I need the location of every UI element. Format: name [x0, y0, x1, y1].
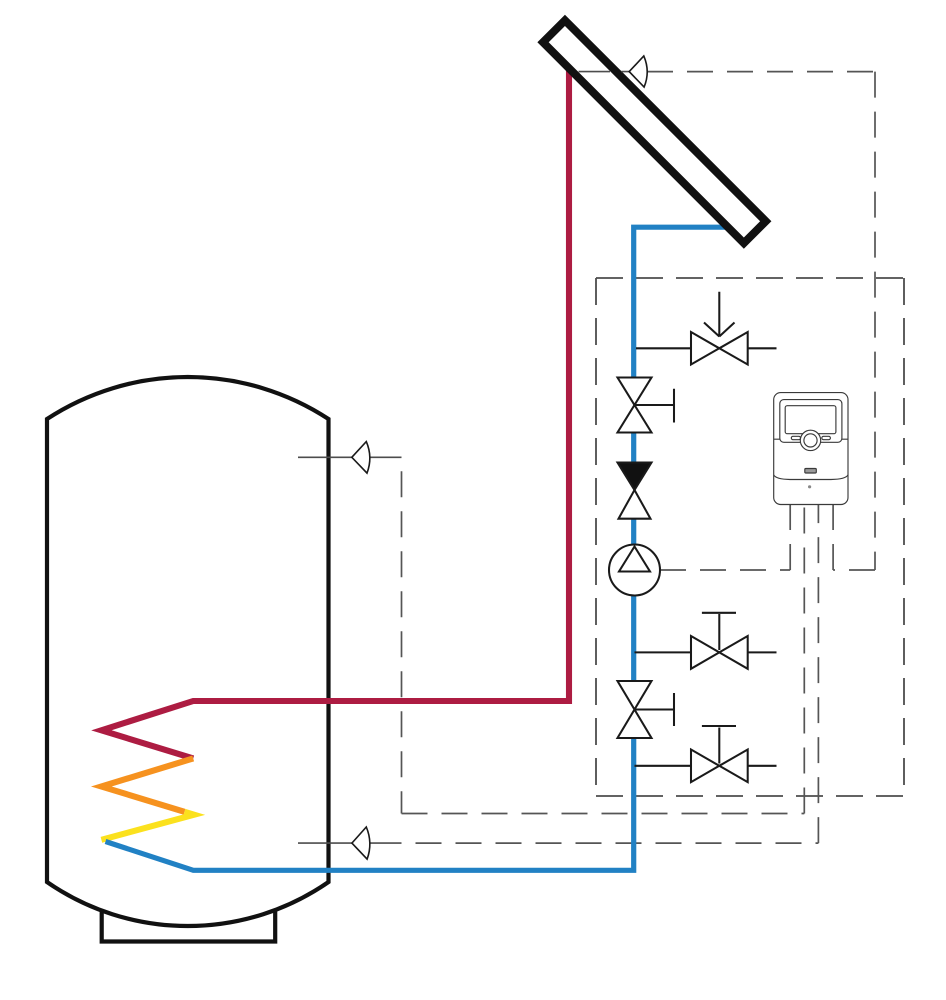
collector sensor lead (solid, over panel) — [579, 71, 630, 73]
circulation pump P1 — [609, 545, 660, 596]
tank temperature sensor S2 (upper) — [352, 442, 370, 474]
sensor wire: tank sensor S3 (lower) to controller — [402, 505, 819, 843]
storage tank foot — [102, 909, 276, 942]
cold return pipe (blue): collector to tank coil — [106, 227, 734, 870]
ball valve branch line (bottom) — [635, 765, 777, 767]
control wire: pump to controller — [660, 505, 790, 570]
heat exchanger coil: orange section — [101, 758, 193, 811]
solar collector panel — [543, 20, 766, 243]
shut-off valve V4 (riser, lower) — [618, 681, 675, 738]
tank temperature sensor S3 (lower) — [352, 827, 370, 859]
heat exchanger coil: yellow section — [101, 812, 194, 840]
collector temperature sensor S1 — [629, 56, 647, 87]
fill/flush valve branch line (top) — [636, 347, 777, 349]
ball valve V5 (bottom, with T-handle) — [691, 726, 748, 782]
sensor S3 lead (solid) — [298, 842, 402, 844]
storage tank — [47, 377, 329, 926]
fill/flush valve V1 (with arrow) — [691, 292, 748, 365]
ball valve V3 (middle, with T-handle) — [691, 613, 748, 669]
pump-station boundary box (dashed) — [596, 278, 904, 796]
check valve (gravity brake) — [618, 463, 652, 519]
sensor wire: tank sensor S2 (upper) to controller — [402, 457, 805, 813]
sensor S2 lead (solid) — [298, 456, 402, 458]
solar controller U1 — [774, 393, 848, 505]
heat exchanger coil: hot (red) section — [101, 62, 569, 758]
ball valve branch line (middle) — [635, 651, 777, 653]
shut-off valve V2 (riser, upper) — [618, 378, 675, 433]
sensor wire: collector sensor S1 to controller — [647, 72, 875, 570]
